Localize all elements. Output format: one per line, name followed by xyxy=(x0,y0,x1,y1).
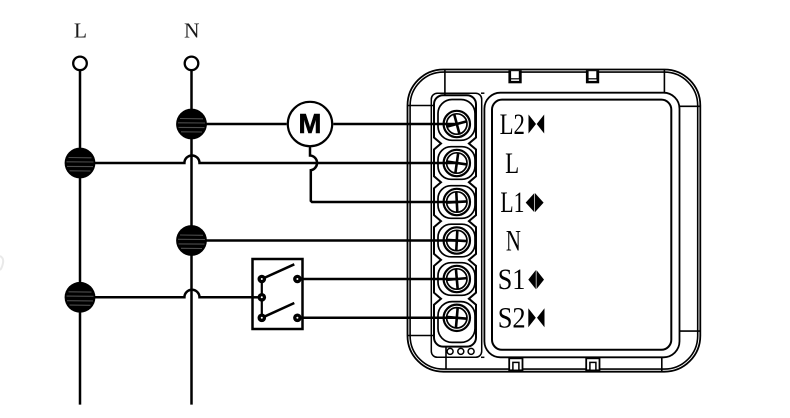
wire L vertical line xyxy=(79,70,82,404)
svg-text:S1: S1 xyxy=(498,263,526,296)
switch SW1 pole mid left xyxy=(258,293,267,302)
switch SW1 box xyxy=(253,259,303,329)
wire switch S2 inside box xyxy=(297,317,302,320)
motor M1 circle xyxy=(288,102,332,146)
node junction on L line (to switch) xyxy=(65,282,96,313)
wire L junction to terminal L (with hop over N line) xyxy=(80,155,458,163)
terminal screw 5 (S1) xyxy=(444,266,470,292)
module corner seam top-right xyxy=(664,70,700,107)
module terminal recess cavity xyxy=(431,93,484,357)
terminal screw 1 (L2) xyxy=(444,111,470,137)
wire N junction to motor xyxy=(192,123,287,126)
terminal block housing xyxy=(434,95,476,346)
svg-text:N: N xyxy=(184,19,200,43)
module corner seam top-left xyxy=(408,70,445,106)
pin label L1 open symbol xyxy=(526,193,544,212)
wire motor to terminal L2 xyxy=(333,123,458,126)
wire switch feed inside box xyxy=(253,296,262,299)
module clip tab top 1 xyxy=(508,70,521,83)
wire N vertical line xyxy=(190,70,193,404)
svg-text:L: L xyxy=(505,147,519,180)
module corner seam bottom-left xyxy=(408,336,447,370)
wire switch to terminal S2 xyxy=(297,317,458,320)
node junction on N line (to module N) xyxy=(176,225,207,256)
LED indicator 2 xyxy=(458,348,464,354)
switch SW1 pole bottom left xyxy=(258,314,267,323)
module clip tab bottom 1 xyxy=(509,358,522,370)
edge artifact xyxy=(0,256,3,270)
wire L junction to switch (with hop over N line) xyxy=(80,290,262,298)
switch SW1 lever bottom xyxy=(262,303,295,318)
module clip tab bottom 2 xyxy=(586,358,599,370)
pin label S1 open symbol xyxy=(528,270,544,289)
wire motor bottom loop to terminal L1 (with hop over L wire) xyxy=(310,147,458,202)
node junction on N line (to motor) xyxy=(176,109,207,140)
terminal screw 3 (L1) xyxy=(444,189,470,215)
wire switch S1 inside box xyxy=(297,278,302,281)
wire N junction to terminal N xyxy=(192,239,459,242)
svg-text:M: M xyxy=(299,108,322,139)
module label panel xyxy=(492,100,671,350)
switch SW1 lever top xyxy=(262,264,295,279)
svg-text:L: L xyxy=(74,19,87,43)
node junction on L line (to module L) xyxy=(65,148,96,179)
LED indicator 3 xyxy=(468,348,474,354)
LED indicator 1 xyxy=(447,348,453,354)
switch SW1 contact bottom right xyxy=(293,314,302,323)
svg-text:N: N xyxy=(506,224,521,257)
terminal screw surrounds xyxy=(438,100,475,343)
terminal screw 4 (N) xyxy=(444,227,470,253)
svg-text:S2: S2 xyxy=(498,302,526,335)
wire switch to terminal S1 xyxy=(297,278,458,281)
module clip tab top 2 xyxy=(586,70,599,83)
svg-text:L1: L1 xyxy=(500,186,524,219)
module faceplate plateau xyxy=(484,93,679,358)
pin label S2 close symbol xyxy=(528,308,544,327)
svg-text:L2: L2 xyxy=(500,108,525,141)
terminal circle L xyxy=(73,57,87,71)
switch SW1 pole top left xyxy=(258,275,267,284)
module U1 outer case xyxy=(408,70,701,372)
terminal screw 6 (S2) xyxy=(444,305,470,331)
terminal circle N xyxy=(185,57,199,71)
module corner seam bottom-right xyxy=(662,331,701,372)
terminal screw 2 (L) xyxy=(444,150,470,176)
pin label L2 close symbol xyxy=(529,115,545,134)
switch SW1 contact top right xyxy=(293,275,302,284)
switch SW1 common bar xyxy=(261,279,263,318)
